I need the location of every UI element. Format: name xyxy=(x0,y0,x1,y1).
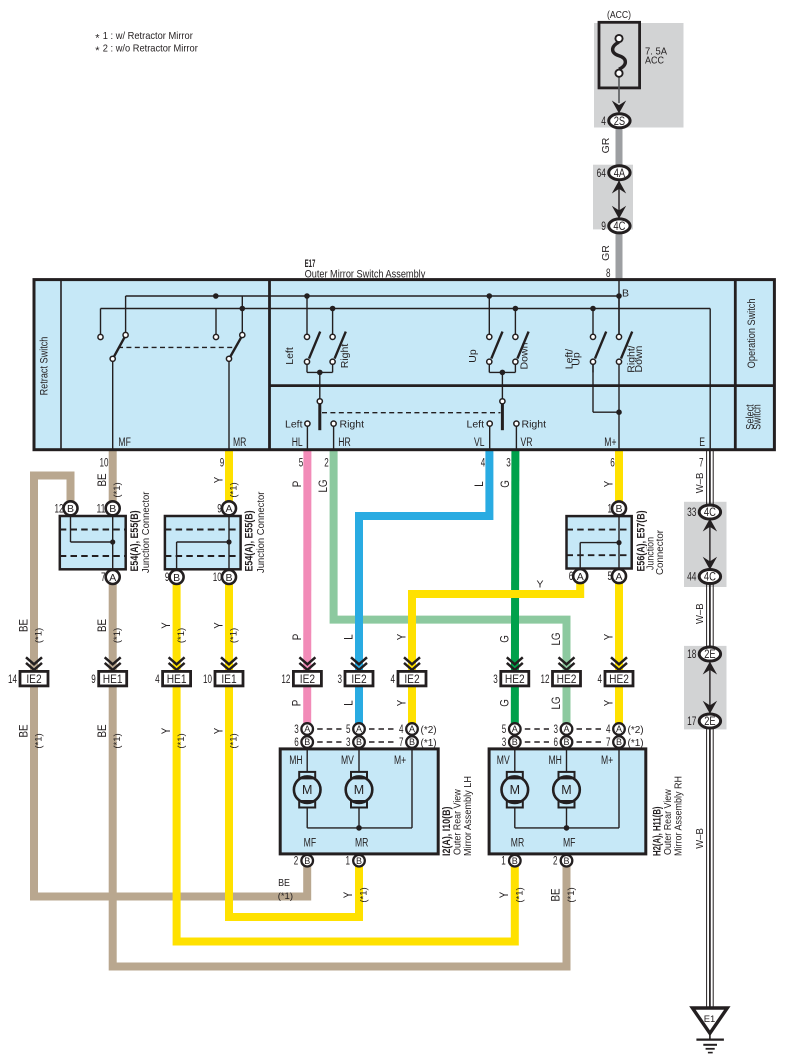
svg-text:B: B xyxy=(173,572,180,584)
svg-text:A: A xyxy=(512,724,518,734)
svg-text:1: 1 xyxy=(501,856,506,868)
svg-text:ACC: ACC xyxy=(645,55,664,67)
svg-text:A: A xyxy=(304,724,310,734)
svg-text:7: 7 xyxy=(606,737,611,749)
svg-text:MH: MH xyxy=(289,755,302,767)
svg-text:3: 3 xyxy=(346,737,351,749)
svg-text:7: 7 xyxy=(699,458,704,470)
svg-text:BE: BE xyxy=(97,724,109,737)
svg-text:4: 4 xyxy=(155,674,160,686)
svg-text:LG: LG xyxy=(551,696,563,709)
svg-text:GR: GR xyxy=(600,137,612,153)
svg-text:9: 9 xyxy=(165,572,170,584)
svg-text:MH: MH xyxy=(549,755,562,767)
svg-text:IE2: IE2 xyxy=(300,672,316,686)
svg-text:A: A xyxy=(577,571,584,583)
svg-text:3: 3 xyxy=(294,724,299,736)
svg-text:6: 6 xyxy=(554,737,559,749)
svg-text:9: 9 xyxy=(91,674,96,686)
svg-text:Y: Y xyxy=(604,480,616,487)
svg-text:4A: 4A xyxy=(614,166,625,180)
svg-text:Right: Right xyxy=(522,418,547,430)
svg-text:2E: 2E xyxy=(704,714,715,728)
svg-text:Y: Y xyxy=(161,622,173,629)
svg-text:(*1): (*1) xyxy=(514,887,525,902)
svg-text:(*1): (*1) xyxy=(34,733,45,748)
svg-text:B: B xyxy=(67,503,74,515)
svg-text:E54(A), E55(B): E54(A), E55(B) xyxy=(244,510,256,571)
svg-text:Left: Left xyxy=(284,347,296,365)
svg-text:IE2: IE2 xyxy=(404,672,420,686)
svg-text:2E: 2E xyxy=(704,647,715,661)
svg-text:L: L xyxy=(344,700,356,706)
svg-text:18: 18 xyxy=(687,647,697,661)
svg-text:3: 3 xyxy=(502,737,507,749)
svg-text:(*1): (*1) xyxy=(229,628,240,643)
svg-text:4C: 4C xyxy=(704,505,716,519)
svg-text:6: 6 xyxy=(569,571,574,583)
svg-text:Left: Left xyxy=(466,418,484,430)
svg-text:MF: MF xyxy=(304,838,317,850)
svg-text:4C: 4C xyxy=(613,219,625,233)
svg-text:VL: VL xyxy=(474,437,485,449)
svg-text:(*1): (*1) xyxy=(176,733,187,748)
svg-text:L: L xyxy=(344,634,356,640)
svg-text:LG: LG xyxy=(551,632,563,645)
svg-text:Operation Switch: Operation Switch xyxy=(746,299,758,369)
svg-text:9: 9 xyxy=(601,219,606,233)
svg-text:2 : w/o Retractor Mirror: 2 : w/o Retractor Mirror xyxy=(103,43,198,55)
svg-text:MV: MV xyxy=(341,755,354,767)
svg-text:Retract Switch: Retract Switch xyxy=(39,337,51,396)
svg-text:Y: Y xyxy=(397,699,409,706)
svg-text:P: P xyxy=(292,633,304,640)
svg-text:Switch: Switch xyxy=(752,404,764,429)
svg-text:3: 3 xyxy=(506,458,511,470)
svg-text:HE1: HE1 xyxy=(167,672,187,686)
svg-text:E: E xyxy=(699,437,705,449)
svg-text:2: 2 xyxy=(294,856,299,868)
svg-text:E1: E1 xyxy=(704,1014,716,1025)
svg-text:Mirror Assembly RH: Mirror Assembly RH xyxy=(673,776,685,856)
svg-text:E54(A), E55(B): E54(A), E55(B) xyxy=(129,510,141,571)
svg-text:A: A xyxy=(225,503,232,515)
svg-text:(*2): (*2) xyxy=(628,725,644,736)
svg-text:7: 7 xyxy=(399,737,404,749)
svg-text:B: B xyxy=(304,856,310,866)
svg-text:HE2: HE2 xyxy=(609,672,629,686)
svg-text:B: B xyxy=(409,737,415,747)
svg-text:4C: 4C xyxy=(704,570,716,584)
svg-text:HE1: HE1 xyxy=(103,672,123,686)
svg-text:IE1: IE1 xyxy=(221,672,237,686)
svg-text:5: 5 xyxy=(346,724,351,736)
svg-text:M+: M+ xyxy=(601,755,613,767)
svg-text:P: P xyxy=(292,699,304,706)
svg-text:BE: BE xyxy=(551,888,563,901)
svg-text:MV: MV xyxy=(497,755,510,767)
svg-text:(ACC): (ACC) xyxy=(607,9,631,21)
svg-text:A: A xyxy=(109,572,116,584)
svg-text:(*1): (*1) xyxy=(229,482,240,497)
svg-text:(*1): (*1) xyxy=(34,628,45,643)
svg-text:G: G xyxy=(499,699,511,707)
svg-text:4: 4 xyxy=(391,674,396,686)
svg-text:4: 4 xyxy=(606,724,611,736)
svg-text:Y: Y xyxy=(214,727,226,734)
svg-text:12: 12 xyxy=(55,504,64,516)
svg-text:Y: Y xyxy=(537,579,544,591)
svg-text:44: 44 xyxy=(687,570,697,584)
svg-text:1 : w/ Retractor Mirror: 1 : w/ Retractor Mirror xyxy=(103,30,193,42)
svg-text:64: 64 xyxy=(597,166,607,180)
svg-text:Y: Y xyxy=(604,699,616,706)
svg-text:*: * xyxy=(95,33,100,45)
svg-text:P: P xyxy=(292,480,304,487)
svg-text:Right: Right xyxy=(339,344,351,369)
svg-text:(*1): (*1) xyxy=(176,628,187,643)
svg-text:W–B: W–B xyxy=(694,828,706,849)
svg-text:L: L xyxy=(474,481,486,487)
svg-text:A: A xyxy=(563,724,569,734)
svg-text:Junction Connector: Junction Connector xyxy=(140,491,152,573)
svg-text:(*1): (*1) xyxy=(421,738,437,749)
svg-text:M: M xyxy=(510,783,520,797)
svg-text:BE: BE xyxy=(97,473,109,486)
svg-text:2: 2 xyxy=(324,458,329,470)
svg-text:B: B xyxy=(616,737,622,747)
svg-text:Right: Right xyxy=(340,418,365,430)
svg-text:LG: LG xyxy=(318,479,330,492)
svg-text:33: 33 xyxy=(687,505,697,519)
svg-text:3: 3 xyxy=(493,674,498,686)
svg-text:2S: 2S xyxy=(614,114,625,128)
svg-text:B: B xyxy=(225,572,232,584)
svg-text:4: 4 xyxy=(601,114,606,128)
svg-text:Y: Y xyxy=(397,633,409,640)
svg-text:MF: MF xyxy=(118,437,130,449)
svg-text:A: A xyxy=(616,724,622,734)
svg-text:M+: M+ xyxy=(394,755,406,767)
svg-text:*: * xyxy=(95,45,100,57)
svg-text:Up: Up xyxy=(467,349,479,363)
svg-text:M: M xyxy=(354,783,364,797)
svg-text:10: 10 xyxy=(100,458,109,470)
svg-text:B: B xyxy=(356,737,362,747)
svg-text:B: B xyxy=(563,737,569,747)
svg-text:M: M xyxy=(561,783,571,797)
svg-text:5: 5 xyxy=(299,458,304,470)
svg-text:2: 2 xyxy=(553,856,558,868)
svg-text:(*1): (*1) xyxy=(112,628,123,643)
svg-text:BE: BE xyxy=(278,877,290,889)
svg-text:14: 14 xyxy=(8,674,17,686)
svg-text:17: 17 xyxy=(687,714,697,728)
svg-text:(*1): (*1) xyxy=(112,733,123,748)
svg-text:HL: HL xyxy=(292,437,303,449)
svg-text:MR: MR xyxy=(355,838,368,850)
svg-text:Y: Y xyxy=(499,891,511,898)
svg-text:1: 1 xyxy=(608,504,613,516)
svg-text:M: M xyxy=(302,783,312,797)
svg-text:A: A xyxy=(409,724,415,734)
svg-text:Up: Up xyxy=(571,352,583,366)
svg-text:GR: GR xyxy=(600,245,612,261)
svg-text:3: 3 xyxy=(554,724,559,736)
svg-text:12: 12 xyxy=(281,674,290,686)
svg-text:(*1): (*1) xyxy=(229,733,240,748)
svg-text:(*2): (*2) xyxy=(421,725,437,736)
svg-text:IE2: IE2 xyxy=(351,672,367,686)
svg-text:W–B: W–B xyxy=(694,603,706,624)
svg-text:4: 4 xyxy=(481,458,486,470)
svg-text:10: 10 xyxy=(203,674,212,686)
svg-text:Mirror Assembly LH: Mirror Assembly LH xyxy=(462,776,474,856)
svg-text:5: 5 xyxy=(608,571,613,583)
svg-text:6: 6 xyxy=(610,458,615,470)
svg-text:Y: Y xyxy=(214,622,226,629)
svg-text:BE: BE xyxy=(19,619,31,632)
svg-text:4: 4 xyxy=(598,674,603,686)
svg-text:VR: VR xyxy=(521,437,533,449)
svg-text:9: 9 xyxy=(217,504,222,516)
svg-text:(*1): (*1) xyxy=(278,891,293,902)
svg-text:Y: Y xyxy=(604,633,616,640)
svg-text:W–B: W–B xyxy=(694,473,706,494)
svg-text:Junction Connector: Junction Connector xyxy=(255,491,267,573)
svg-text:12: 12 xyxy=(541,674,550,686)
svg-text:Y: Y xyxy=(343,891,355,898)
svg-text:9: 9 xyxy=(220,458,225,470)
svg-text:MR: MR xyxy=(511,838,524,850)
svg-text:(*1): (*1) xyxy=(359,887,370,902)
svg-text:Y: Y xyxy=(214,476,226,483)
svg-text:(*1): (*1) xyxy=(112,482,123,497)
svg-text:HE2: HE2 xyxy=(505,672,525,686)
svg-text:MF: MF xyxy=(563,838,576,850)
svg-text:B: B xyxy=(356,856,362,866)
svg-text:Down: Down xyxy=(633,345,645,372)
svg-text:3: 3 xyxy=(338,674,343,686)
svg-text:1: 1 xyxy=(346,856,351,868)
svg-text:IE2: IE2 xyxy=(26,672,42,686)
svg-text:BE: BE xyxy=(19,724,31,737)
svg-text:BE: BE xyxy=(97,619,109,632)
svg-text:Y: Y xyxy=(161,727,173,734)
svg-text:10: 10 xyxy=(213,572,222,584)
svg-text:B: B xyxy=(109,503,116,515)
svg-text:5: 5 xyxy=(502,724,507,736)
svg-text:7: 7 xyxy=(101,572,106,584)
svg-text:B: B xyxy=(304,737,310,747)
svg-text:(*1): (*1) xyxy=(566,887,577,902)
svg-text:4: 4 xyxy=(399,724,404,736)
svg-text:G: G xyxy=(499,635,511,643)
svg-text:MR: MR xyxy=(233,437,246,449)
svg-text:A: A xyxy=(615,571,622,583)
svg-text:M+: M+ xyxy=(604,437,616,449)
svg-text:Down: Down xyxy=(519,342,531,369)
svg-text:Left: Left xyxy=(285,418,303,430)
svg-text:B: B xyxy=(622,288,629,300)
svg-text:HR: HR xyxy=(338,437,351,449)
svg-text:HE2: HE2 xyxy=(557,672,577,686)
svg-text:11: 11 xyxy=(97,504,106,516)
svg-text:A: A xyxy=(356,724,362,734)
svg-text:(*1): (*1) xyxy=(628,738,644,749)
svg-text:B: B xyxy=(512,737,518,747)
svg-text:6: 6 xyxy=(294,737,299,749)
svg-text:G: G xyxy=(500,480,512,488)
svg-text:B: B xyxy=(563,856,569,866)
svg-text:B: B xyxy=(615,503,622,515)
svg-text:B: B xyxy=(512,856,518,866)
svg-text:Connector: Connector xyxy=(654,530,666,575)
